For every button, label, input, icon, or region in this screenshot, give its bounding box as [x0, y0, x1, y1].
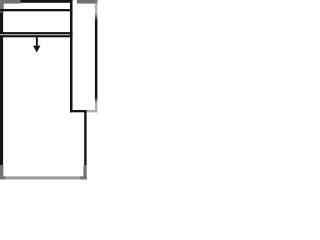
- wall: double line inner gap: [0, 34, 73, 35]
- wall: inner-rect right edge fade black to gray: [95, 97, 98, 103]
- wall: bottom-left gray vertical segment: [0, 165, 3, 178]
- wall: bottom gray horizontal: [0, 176, 87, 179]
- wall: bottom gray bar left end cap: [0, 176, 6, 179]
- wall: double line band: [0, 32, 73, 37]
- wall: lower-right vertical (black): [84, 111, 86, 166]
- background: [0, 0, 102, 185]
- wall: top-left gray vertical segment: [0, 0, 4, 13]
- arrow head: [33, 46, 41, 53]
- wall: inner-rect bottom black part: [70, 110, 87, 112]
- wall: bottom gray bar right end cap: [80, 176, 87, 179]
- wall: inner-rect right edge light gray upper: [95, 4, 98, 13]
- wall: top horizontal (black): [0, 0, 73, 3]
- wall: inner-rect right edge light gray lower: [95, 103, 98, 110]
- wall: inner-rect right edge bottom corner gray: [95, 110, 98, 112]
- wall: bottom-right gray vertical segment: [83, 165, 86, 177]
- arrow shaft: [36, 37, 38, 45]
- wall: inner-rect right edge fade gray to black: [95, 13, 98, 21]
- wall: inner-rect top gray: [77, 0, 97, 4]
- wall: inner-rect bottom gray part: [87, 110, 98, 112]
- wall: middle vertical (black): [70, 0, 73, 112]
- wall: inner-rect right edge black middle: [95, 21, 98, 97]
- wall: left vertical (black): [0, 0, 3, 166]
- wall: inner horizontal line below top: [0, 9, 73, 11]
- wall: top-left gray horizontal segment: [0, 0, 21, 4]
